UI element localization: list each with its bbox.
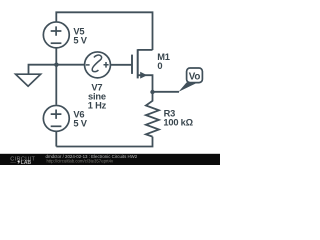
- svg-text:http://circuitlab.com/c/3te357: http://circuitlab.com/c/3te357eprt4v: [47, 158, 114, 163]
- banner circuitlab logo: [10, 156, 35, 162]
- svg-text:1 Hz: 1 Hz: [88, 101, 107, 111]
- wire node B to Vo flag: [153, 91, 180, 93]
- svg-text:‒‒: ‒‒: [10, 160, 16, 165]
- M1 source arrow: [140, 72, 147, 79]
- voltage source V6: [43, 105, 69, 131]
- wire top rail from V5 to M1 drain: [56, 12, 152, 50]
- output flag Vo box: [187, 68, 203, 83]
- wire node A to ground: [29, 65, 57, 74]
- wire V6 bottom stub: [55, 132, 57, 147]
- label R3 value: [163, 109, 193, 128]
- resistor R3: [146, 92, 159, 137]
- label M1: [157, 52, 170, 71]
- svg-text:LAB: LAB: [21, 160, 32, 165]
- label V6 value: [73, 110, 87, 129]
- label V5 value: [73, 27, 87, 46]
- output flag Vo pointer: [179, 82, 198, 91]
- voltage source V5: [43, 22, 69, 48]
- transistor M1 nmos: [132, 49, 153, 92]
- node B junction dot: [150, 90, 154, 94]
- voltage source V7 sine: [85, 52, 111, 78]
- ground: [16, 74, 41, 86]
- svg-text:5 V: 5 V: [73, 119, 87, 129]
- wire V5 bottom stub: [55, 48, 57, 64]
- svg-text:Vo: Vo: [189, 71, 201, 82]
- svg-text:100 kΩ: 100 kΩ: [163, 117, 193, 127]
- svg-text:0: 0: [157, 61, 162, 71]
- svg-text:5 V: 5 V: [73, 35, 87, 45]
- wire node A to V7 left terminal: [56, 64, 84, 66]
- wire V6 top stub from node A: [55, 65, 57, 105]
- wire gate net V7 to M1 gate: [111, 64, 132, 66]
- node A junction dot: [54, 62, 58, 66]
- banner: [0, 154, 220, 165]
- wire bottom rail: [56, 137, 152, 147]
- label V7 value: [88, 83, 107, 111]
